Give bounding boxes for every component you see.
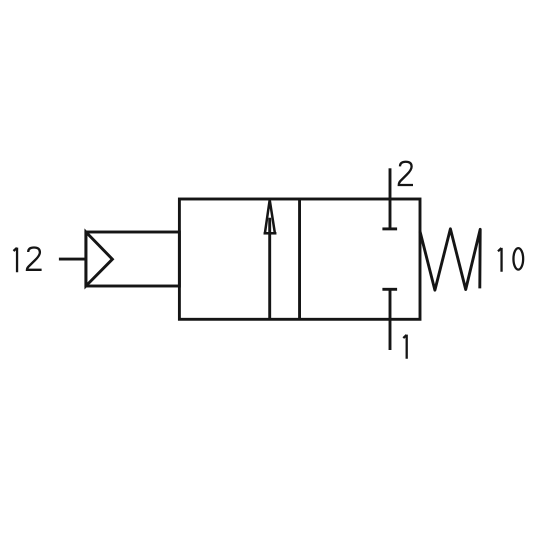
port 2 line <box>389 168 392 229</box>
valve body (two position boxes) <box>179 199 420 319</box>
port 1 line <box>389 289 392 350</box>
label 10 digit 1 <box>498 248 502 272</box>
port 2 blocked seat T-bar <box>382 227 397 230</box>
label 10 digit 0 <box>513 248 523 270</box>
position divider line <box>298 199 301 319</box>
label 2 (port 2) <box>399 162 413 185</box>
pilot lead line (port 12) <box>59 258 87 261</box>
flow path arrowhead <box>265 200 275 234</box>
flow path arrow stem (left position) <box>268 218 271 319</box>
label 12 <box>14 248 42 273</box>
port 1 blocked seat T-bar <box>382 288 397 291</box>
flow path arrowhead base bar <box>264 232 277 235</box>
pilot pressure triangle <box>86 232 113 286</box>
return spring <box>420 229 480 290</box>
label 1 (port 1) <box>403 335 406 359</box>
pilot actuator box <box>86 232 179 286</box>
